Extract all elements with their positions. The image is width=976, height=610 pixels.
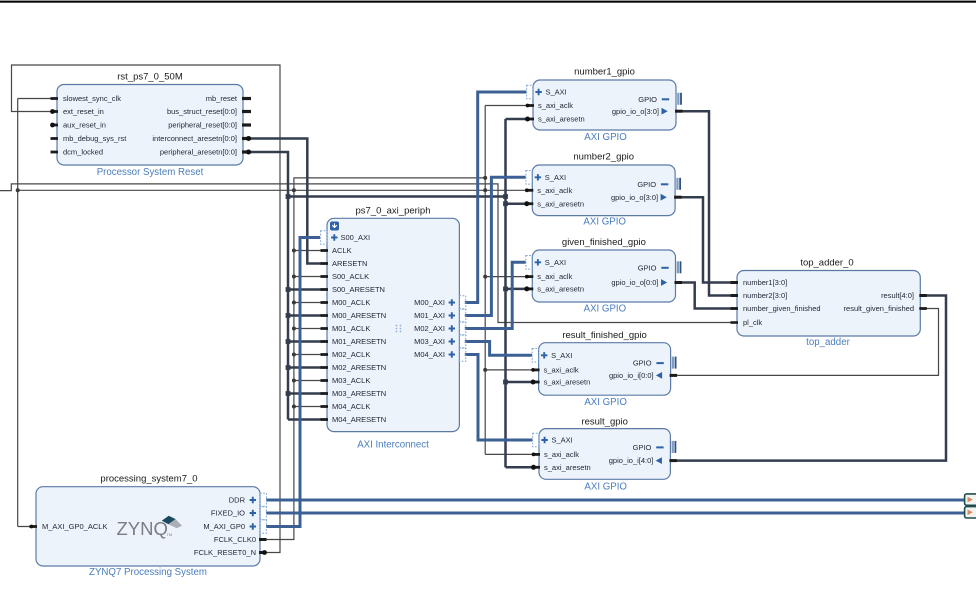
- svg-text:M01_ARESETN: M01_ARESETN: [332, 337, 386, 346]
- pin mb_debug_sys_rst: [51, 137, 59, 140]
- block number2_gpio (AXI GPIO): [524, 152, 681, 228]
- pin s_axi_aclk: [533, 453, 541, 456]
- svg-text:Processor System Reset: Processor System Reset: [97, 167, 204, 178]
- svg-text:s_axi_aresetn: s_axi_aresetn: [544, 463, 591, 472]
- pin S_AXI: [526, 256, 532, 270]
- svg-text:pl_clk: pl_clk: [743, 318, 762, 327]
- svg-text:GPIO: GPIO: [637, 180, 656, 189]
- pin number1[3:0]: [731, 281, 739, 284]
- svg-text:M_AXI_GP0_ACLK: M_AXI_GP0_ACLK: [42, 522, 107, 531]
- svg-text:bus_struct_reset[0:0]: bus_struct_reset[0:0]: [167, 107, 237, 116]
- svg-text:ACLK: ACLK: [332, 246, 352, 255]
- pin S_AXI: [533, 433, 539, 447]
- svg-text:GPIO: GPIO: [638, 263, 657, 272]
- pin mb_reset: [242, 97, 251, 100]
- pin S_AXI: [527, 85, 533, 99]
- pin M04_ARESETN: [321, 418, 329, 421]
- svg-text:result[4:0]: result[4:0]: [881, 291, 914, 300]
- pin FCLK_RESET0_N: [259, 551, 267, 554]
- svg-text:AXI GPIO: AXI GPIO: [584, 482, 627, 493]
- pin M02_ACLK: [321, 353, 329, 356]
- svg-text:M_AXI_GP0: M_AXI_GP0: [203, 522, 245, 531]
- pin S00_ACLK: [321, 275, 329, 278]
- pin M03_ARESETN: [321, 392, 329, 395]
- pin s_axi_aresetn: [532, 381, 540, 384]
- svg-text:S_AXI: S_AXI: [551, 351, 572, 360]
- svg-text:given_finished_gpio: given_finished_gpio: [562, 237, 646, 248]
- svg-text:AXI GPIO: AXI GPIO: [584, 397, 627, 408]
- svg-text:slowest_sync_clk: slowest_sync_clk: [63, 94, 121, 103]
- svg-text:processing_system7_0: processing_system7_0: [100, 474, 197, 485]
- svg-text:s_axi_aclk: s_axi_aclk: [537, 186, 572, 195]
- pin M00_ACLK: [321, 301, 329, 304]
- svg-text:S00_ARESETN: S00_ARESETN: [332, 285, 385, 294]
- pin FCLK_CLK0: [259, 538, 267, 541]
- pin M01_ACLK: [321, 327, 329, 330]
- pin S_AXI: [532, 349, 538, 363]
- svg-text:M04_AXI: M04_AXI: [414, 350, 445, 359]
- pin ARESETN: [321, 262, 329, 265]
- wire interconnect_aresetn net: [243, 139, 322, 264]
- pin M03_AXI: [459, 335, 465, 349]
- svg-text:mb_reset: mb_reset: [206, 94, 238, 103]
- svg-text:TM: TM: [167, 532, 173, 537]
- wire FCLK_CLK0 clock net: [0, 99, 733, 540]
- svg-text:aux_reset_in: aux_reset_in: [63, 121, 106, 130]
- port DDR external interface: [965, 494, 976, 505]
- svg-text:ps7_0_axi_periph: ps7_0_axi_periph: [355, 206, 430, 217]
- svg-text:M04_ARESETN: M04_ARESETN: [332, 415, 386, 424]
- wire M04_AXI interface bus: [465, 355, 533, 441]
- svg-text:AXI GPIO: AXI GPIO: [583, 217, 626, 228]
- pin aux_reset_in: [51, 124, 59, 127]
- svg-text:gpio_io_o[0:0]: gpio_io_o[0:0]: [611, 278, 658, 287]
- wire number1 gpio_io_o[3:0] net: [676, 111, 737, 295]
- svg-text:M01_AXI: M01_AXI: [414, 311, 445, 320]
- block processing_system7_0 (ZYNQ7 Processing System U4): [30, 474, 267, 579]
- pin peripheral_aresetn[0:0]: [242, 150, 251, 153]
- block given_finished_gpio (AXI GPIO): [524, 237, 682, 315]
- svg-text:AXI Interconnect: AXI Interconnect: [357, 440, 429, 451]
- pin S00_AXI: [321, 231, 327, 245]
- svg-text:number2[3:0]: number2[3:0]: [743, 291, 787, 300]
- svg-text:GPIO: GPIO: [633, 443, 652, 452]
- wire result[4:0] net: [670, 296, 946, 461]
- block top_adder_0 (top_adder U3): [731, 258, 927, 349]
- svg-text:S_AXI: S_AXI: [552, 436, 573, 445]
- svg-text:top_adder_0: top_adder_0: [800, 258, 853, 269]
- block ps7_0_axi_periph (AXI Interconnect U2): [321, 206, 466, 451]
- svg-text:GPIO: GPIO: [638, 95, 657, 104]
- pin number2[3:0]: [731, 294, 739, 297]
- pin result[4:0]: [919, 294, 927, 297]
- wire FCLK_RESET0_N net: [12, 65, 281, 553]
- svg-text:FCLK_CLK0: FCLK_CLK0: [214, 535, 256, 544]
- svg-text:result_finished_gpio: result_finished_gpio: [562, 330, 647, 341]
- wire M01_AXI interface bus: [465, 177, 526, 315]
- expand dots icon: [396, 325, 398, 327]
- svg-text:dcm_locked: dcm_locked: [63, 148, 103, 157]
- svg-text:s_axi_aresetn: s_axi_aresetn: [544, 378, 591, 387]
- svg-text:s_axi_aresetn: s_axi_aresetn: [537, 199, 584, 208]
- wire M00_AXI interface bus: [465, 92, 527, 303]
- svg-text:S_AXI: S_AXI: [545, 173, 566, 182]
- svg-text:peripheral_aresetn[0:0]: peripheral_aresetn[0:0]: [160, 148, 237, 157]
- block result_gpio (AXI GPIO): [531, 417, 677, 493]
- svg-text:rst_ps7_0_50M: rst_ps7_0_50M: [117, 72, 183, 83]
- svg-text:M03_ACLK: M03_ACLK: [332, 376, 370, 385]
- svg-text:S00_ACLK: S00_ACLK: [332, 272, 369, 281]
- pin M01_AXI: [459, 309, 465, 323]
- top window border line: [0, 1, 976, 3]
- svg-text:gpio_io_i[4:0]: gpio_io_i[4:0]: [609, 456, 654, 465]
- pin M04_AXI: [459, 348, 465, 362]
- svg-text:ext_reset_in: ext_reset_in: [63, 107, 104, 116]
- svg-text:gpio_io_i[0:0]: gpio_io_i[0:0]: [609, 371, 654, 380]
- wire M03_AXI interface bus: [465, 342, 532, 356]
- pin ext_reset_in: [51, 110, 59, 113]
- pin s_axi_aresetn: [526, 288, 534, 291]
- wire M02_AXI interface bus: [465, 262, 526, 328]
- pin M00_ARESETN: [321, 314, 329, 317]
- svg-text:ZYNQ: ZYNQ: [117, 518, 168, 539]
- pin M03_ACLK: [321, 379, 329, 382]
- pin M01_ARESETN: [321, 340, 329, 343]
- pin number_given_finished: [731, 307, 739, 310]
- pin peripheral_reset[0:0]: [242, 123, 251, 126]
- svg-text:mb_debug_sys_rst: mb_debug_sys_rst: [63, 134, 127, 143]
- svg-text:M00_ARESETN: M00_ARESETN: [332, 311, 386, 320]
- svg-text:peripheral_reset[0:0]: peripheral_reset[0:0]: [168, 121, 237, 130]
- svg-text:gpio_io_o[3:0]: gpio_io_o[3:0]: [611, 193, 658, 202]
- pin pl_clk: [731, 321, 739, 324]
- svg-text:S_AXI: S_AXI: [545, 258, 566, 267]
- svg-text:S_AXI: S_AXI: [546, 88, 567, 97]
- pin ACLK: [321, 249, 329, 252]
- svg-text:interconnect_aresetn[0:0]: interconnect_aresetn[0:0]: [152, 134, 237, 143]
- pin s_axi_aclk: [526, 275, 534, 278]
- wire FIXED_IO interface bus: [266, 512, 966, 515]
- pin slowest_sync_clk: [51, 97, 59, 100]
- svg-text:M01_ACLK: M01_ACLK: [332, 324, 370, 333]
- pin M04_ACLK: [321, 405, 329, 408]
- wire DDR interface bus: [266, 499, 966, 502]
- svg-text:AXI GPIO: AXI GPIO: [584, 132, 627, 143]
- svg-text:ZYNQ7 Processing System: ZYNQ7 Processing System: [89, 567, 207, 578]
- svg-text:M00_ACLK: M00_ACLK: [332, 298, 370, 307]
- wire peripheral_aresetn net: [243, 119, 535, 467]
- block number1_gpio (AXI GPIO): [525, 67, 683, 144]
- pin M02_ARESETN: [321, 366, 329, 369]
- pin s_axi_aresetn: [526, 202, 534, 205]
- collapse icon: [330, 222, 339, 231]
- pin s_axi_aclk: [532, 369, 540, 372]
- svg-text:AXI GPIO: AXI GPIO: [584, 304, 627, 315]
- pin result_given_finished: [919, 307, 927, 310]
- svg-text:s_axi_aclk: s_axi_aclk: [537, 272, 572, 281]
- svg-text:number_given_finished: number_given_finished: [743, 304, 821, 313]
- pin FIXED_IO: [260, 506, 266, 520]
- svg-text:s_axi_aclk: s_axi_aclk: [538, 101, 573, 110]
- svg-text:result_given_finished: result_given_finished: [844, 304, 914, 313]
- svg-text:GPIO: GPIO: [633, 359, 652, 368]
- pin S00_ARESETN: [321, 288, 329, 291]
- pin dcm_locked: [51, 151, 59, 154]
- svg-text:s_axi_aresetn: s_axi_aresetn: [537, 285, 584, 294]
- block result_finished_gpio (AXI GPIO): [531, 330, 678, 408]
- pin interconnect_aresetn[0:0]: [242, 137, 251, 140]
- wire M_AXI_GP0 interface bus: [266, 238, 320, 527]
- svg-text:M04_ACLK: M04_ACLK: [332, 402, 370, 411]
- pin s_axi_aclk: [527, 104, 535, 107]
- svg-text:M02_AXI: M02_AXI: [414, 324, 445, 333]
- svg-text:S00_AXI: S00_AXI: [341, 233, 371, 242]
- pin M_AXI_GP0: [260, 520, 266, 534]
- svg-text:s_axi_aresetn: s_axi_aresetn: [538, 115, 585, 124]
- wire given_finished gpio_io_o[0:0] net: [676, 283, 738, 309]
- svg-text:ARESETN: ARESETN: [332, 259, 367, 268]
- svg-text:FIXED_IO: FIXED_IO: [211, 509, 245, 518]
- wire result_given_finished net: [671, 309, 939, 376]
- svg-text:M02_ARESETN: M02_ARESETN: [332, 363, 386, 372]
- pin M02_AXI: [459, 322, 465, 336]
- pin s_axi_aresetn: [527, 118, 535, 121]
- pin DDR: [260, 493, 266, 507]
- svg-text:M00_AXI: M00_AXI: [414, 298, 445, 307]
- svg-text:s_axi_aclk: s_axi_aclk: [544, 366, 579, 375]
- port FIXED_IO external interface: [965, 507, 976, 518]
- pin M00_AXI: [459, 296, 465, 310]
- svg-text:number1[3:0]: number1[3:0]: [743, 278, 787, 287]
- pin s_axi_aclk: [526, 189, 534, 192]
- svg-text:s_axi_aclk: s_axi_aclk: [544, 450, 579, 459]
- pin M_AXI_GP0_ACLK: [30, 525, 38, 528]
- svg-text:gpio_io_o[3:0]: gpio_io_o[3:0]: [612, 107, 659, 116]
- svg-text:M02_ACLK: M02_ACLK: [332, 350, 370, 359]
- svg-text:top_adder: top_adder: [806, 337, 850, 348]
- svg-text:FCLK_RESET0_N: FCLK_RESET0_N: [194, 548, 256, 557]
- pin S_AXI: [526, 171, 532, 185]
- pin s_axi_aresetn: [533, 466, 541, 469]
- pin bus_struct_reset[0:0]: [242, 110, 251, 113]
- svg-text:number2_gpio: number2_gpio: [573, 152, 634, 163]
- svg-text:number1_gpio: number1_gpio: [574, 67, 635, 78]
- svg-text:M03_ARESETN: M03_ARESETN: [332, 389, 386, 398]
- svg-text:result_gpio: result_gpio: [581, 417, 627, 428]
- svg-text:DDR: DDR: [229, 496, 246, 505]
- svg-text:M03_AXI: M03_AXI: [414, 337, 445, 346]
- wire number2 gpio_io_o[3:0] net: [675, 197, 737, 282]
- block rst_ps7_0_50M (Processor System Reset U1): [50, 72, 251, 179]
